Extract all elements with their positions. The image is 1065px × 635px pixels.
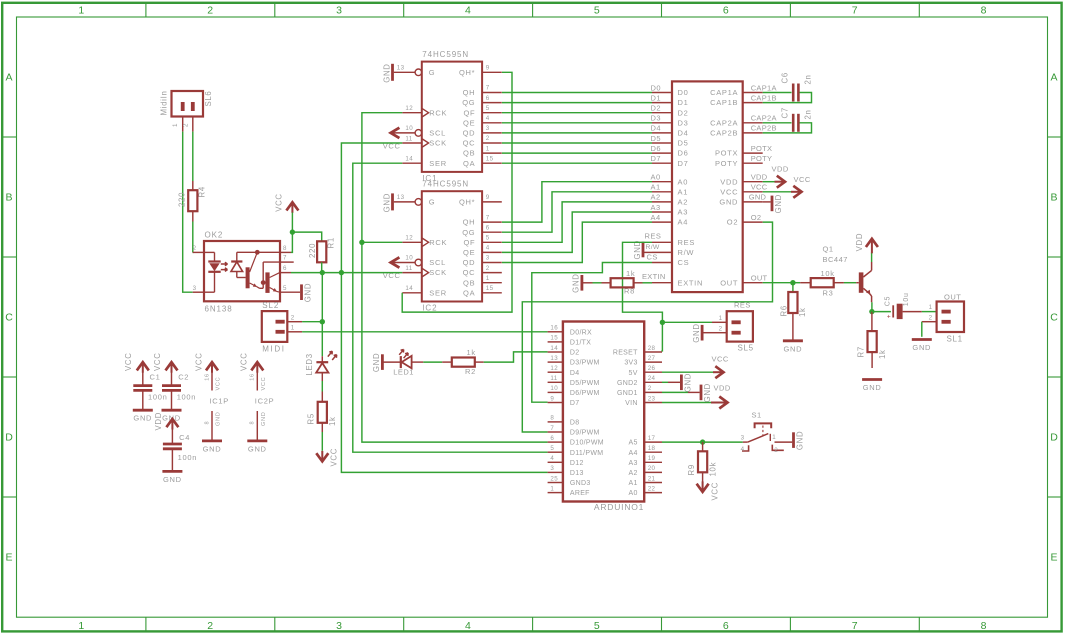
svg-text:10k: 10k (821, 269, 835, 278)
svg-text:D12: D12 (570, 460, 584, 467)
svg-text:O2: O2 (727, 218, 738, 227)
svg-text:GND: GND (863, 383, 882, 392)
junction VCC node (290, 229, 295, 234)
svg-text:OK2: OK2 (205, 231, 224, 240)
IC1 pin 14 SER (402, 162, 422, 164)
svg-text:R2: R2 (465, 367, 476, 376)
svg-text:8: 8 (981, 5, 987, 17)
junction OUT/R6/R3 (790, 280, 795, 285)
svg-text:A3: A3 (629, 460, 638, 467)
svg-text:A2: A2 (678, 198, 689, 207)
svg-text:4: 4 (465, 620, 471, 632)
svg-text:A1: A1 (629, 480, 638, 487)
wire GND to R8 (593, 282, 602, 284)
svg-text:GND: GND (749, 193, 767, 202)
svg-text:POTY: POTY (751, 154, 773, 163)
svg-text:A3: A3 (651, 203, 661, 212)
wire CAP1B loop (763, 93, 812, 103)
resistor R6 1k (788, 292, 797, 313)
svg-text:4: 4 (465, 5, 471, 17)
OK2 internal junction 2 (261, 280, 266, 285)
svg-text:3V3: 3V3 (624, 360, 637, 367)
svg-text:SL6: SL6 (204, 91, 213, 107)
svg-text:14: 14 (405, 285, 413, 292)
wire SL2 pin2 to RX net (302, 321, 322, 323)
svg-text:CAP1B: CAP1B (751, 93, 777, 102)
svg-text:11: 11 (405, 265, 412, 272)
wire Q1 collector to VDD (871, 253, 873, 262)
svg-text:CAP1A: CAP1A (710, 88, 738, 97)
svg-text:13: 13 (397, 194, 405, 201)
svg-text:SCL: SCL (429, 129, 446, 138)
svg-text:D7: D7 (570, 400, 580, 407)
wire LED3 to R5 (321, 373, 323, 381)
wire cascade IC1 QH* to IC2 SER (402, 72, 512, 312)
ARDUINO1 right pins A5-A0 (644, 441, 662, 443)
svg-text:2: 2 (193, 245, 197, 252)
svg-text:22: 22 (648, 485, 656, 492)
svg-text:1k: 1k (798, 307, 807, 317)
IC2 pin 1 QB (482, 282, 502, 284)
OK2 pin 2 (193, 251, 204, 253)
svg-text:2: 2 (486, 265, 490, 272)
svg-text:QE: QE (463, 118, 475, 127)
svg-text:R9: R9 (687, 464, 696, 475)
svg-text:2: 2 (648, 385, 652, 392)
svg-text:A4: A4 (678, 218, 689, 227)
svg-text:1k: 1k (878, 349, 887, 359)
IC2 pin 4 QE (482, 251, 502, 253)
frame row ticks (2, 136, 16, 138)
wire R5 to VCC (321, 432, 323, 451)
led LED3 (316, 361, 328, 363)
IC2 pin 13 G (394, 201, 415, 203)
svg-text:4: 4 (741, 446, 745, 453)
OK2 transistor Qb (265, 272, 269, 293)
svg-text:EXTIN: EXTIN (678, 278, 704, 287)
wire R4 bottom to OK2 pin2 (192, 222, 194, 253)
OK2 internal wire pin7 to Qb base (262, 262, 264, 283)
svg-text:VCC: VCC (712, 354, 729, 363)
svg-text:QA: QA (463, 159, 475, 168)
svg-text:220: 220 (308, 243, 317, 258)
resistor R1 220 (317, 241, 326, 262)
IC2 pin 14 SER (402, 292, 422, 294)
resistor R8 1k (602, 282, 611, 284)
svg-text:RESET: RESET (613, 350, 638, 357)
SID pin RES (652, 241, 672, 243)
OK2 pin 7 (280, 261, 294, 263)
svg-text:A2: A2 (629, 470, 638, 477)
svg-text:A: A (6, 72, 14, 84)
supply VCC arrow at SID (763, 191, 791, 193)
svg-text:VDD: VDD (772, 165, 789, 174)
svg-text:D0/RX: D0/RX (570, 329, 592, 336)
wire SL6 pin1 to OK2 pin3 (183, 132, 193, 293)
svg-text:OUT: OUT (720, 278, 738, 287)
svg-text:QD: QD (463, 129, 476, 138)
svg-text:13: 13 (550, 355, 558, 362)
IC1 pin 7 QH (482, 92, 502, 94)
OK2 pin 3 (193, 291, 204, 293)
IC1 pin 4 QE (482, 122, 502, 124)
svg-text:SL1: SL1 (947, 334, 963, 343)
svg-text:2n: 2n (804, 109, 813, 119)
svg-text:1: 1 (486, 275, 490, 282)
IC2 pin 10 SCL with VCC arrow (391, 257, 400, 267)
svg-text:QG: QG (462, 228, 475, 237)
svg-text:26: 26 (648, 365, 656, 372)
wire VCC to R1 and OK2 pin8 (291, 213, 292, 253)
IC IC1 74HC595N box (422, 62, 482, 172)
wire SID OUT to R3 (763, 282, 793, 284)
svg-text:4: 4 (486, 115, 490, 122)
svg-text:17: 17 (648, 435, 656, 442)
svg-text:D13: D13 (570, 470, 584, 477)
svg-text:C5: C5 (884, 296, 891, 306)
IC2 pin 9 QH* (482, 201, 502, 203)
svg-text:8: 8 (283, 245, 287, 252)
svg-text:6: 6 (486, 224, 490, 231)
svg-text:R/W: R/W (646, 244, 660, 251)
svg-text:A0: A0 (629, 490, 638, 497)
wire R1 bottom to RX net (321, 262, 323, 272)
svg-text:RES: RES (678, 238, 696, 247)
IC2 pin 6 QG (482, 231, 502, 233)
IC1 pin 15 QA (482, 162, 502, 164)
svg-text:VCC: VCC (710, 482, 719, 501)
svg-text:15: 15 (486, 285, 494, 292)
svg-text:7: 7 (486, 85, 490, 92)
svg-text:2n: 2n (804, 74, 813, 84)
IC2 pin 5 QF (482, 241, 502, 243)
svg-text:8: 8 (204, 421, 210, 425)
svg-text:QC: QC (463, 268, 476, 277)
supply VCC arrow down below R9 (697, 484, 709, 492)
svg-text:D7: D7 (678, 159, 689, 168)
OK2 internal photodiode (236, 252, 238, 261)
svg-text:D3/PWM: D3/PWM (570, 360, 600, 367)
svg-text:D1/TX: D1/TX (570, 340, 591, 347)
svg-text:1: 1 (486, 145, 490, 152)
svg-text:15: 15 (486, 155, 494, 162)
svg-text:POTY: POTY (715, 159, 738, 168)
svg-text:5: 5 (283, 285, 287, 292)
svg-text:RES: RES (734, 301, 751, 310)
svg-text:VCC: VCC (216, 377, 222, 391)
svg-text:SCK: SCK (429, 139, 447, 148)
svg-text:IC2: IC2 (422, 304, 437, 313)
svg-text:VCC: VCC (240, 352, 249, 371)
svg-text:GND: GND (203, 444, 222, 453)
svg-text:EXTIN: EXTIN (642, 272, 666, 281)
junction SCK vertical on RX net (339, 270, 344, 275)
supply VDD arrow at Arduino VIN (662, 402, 711, 404)
OK2 transistor Qa (246, 267, 250, 288)
svg-text:QC: QC (463, 139, 476, 148)
wire R2 to Arduino D2 (484, 352, 548, 362)
IC2 pin 15 QA (482, 292, 502, 294)
svg-text:GND: GND (784, 344, 803, 353)
svg-text:GND: GND (774, 194, 783, 213)
svg-text:C: C (5, 312, 13, 324)
svg-text:C6: C6 (781, 72, 790, 83)
IC SID chip box (672, 81, 743, 292)
supply VCC arrow at Arduino 5V (662, 371, 714, 373)
supply VCC arrow above OK2 pin8 (286, 202, 298, 210)
svg-text:D3: D3 (651, 114, 662, 123)
svg-text:LED3: LED3 (305, 353, 314, 375)
svg-text:D7: D7 (651, 154, 662, 163)
svg-text:2: 2 (486, 135, 490, 142)
IC2 pin 3 QD (482, 262, 502, 264)
svg-text:QB: QB (463, 278, 475, 287)
svg-text:QH: QH (463, 218, 476, 227)
wire CAP2B loop (763, 123, 812, 133)
svg-text:2: 2 (291, 315, 295, 322)
svg-text:9: 9 (486, 65, 490, 72)
svg-text:GND: GND (703, 383, 712, 402)
IC2 GND symbol at pin 13 (391, 193, 394, 210)
svg-text:A0: A0 (678, 177, 689, 186)
IC2 pin 12 RCK (402, 241, 422, 243)
svg-text:220: 220 (177, 192, 186, 207)
svg-text:OUT: OUT (944, 292, 961, 301)
svg-text:D9/PWM: D9/PWM (570, 430, 600, 437)
svg-text:D6/PWM: D6/PWM (570, 390, 600, 397)
junction A5/R9/S1 (700, 439, 705, 444)
svg-text:5: 5 (486, 235, 490, 242)
capacitor C7 2n (763, 122, 792, 124)
resistor R4 220 (192, 181, 194, 190)
IC ARDUINO1 box (563, 322, 644, 502)
wire C5 to SL1 pin1 (903, 311, 922, 313)
OK2 coupling arrows (221, 262, 228, 266)
svg-text:GND: GND (261, 411, 267, 426)
wire CS net: SID CS to Arduino D7 (532, 263, 652, 403)
svg-text:23: 23 (648, 395, 656, 402)
svg-text:C2: C2 (178, 373, 189, 382)
IC1 pin 13 G (394, 71, 415, 73)
svg-text:G: G (429, 68, 436, 77)
svg-text:VCC: VCC (124, 352, 133, 371)
frame column ticks (145, 3, 147, 17)
svg-text:10: 10 (405, 125, 413, 132)
svg-text:8: 8 (550, 415, 554, 422)
svg-text:S1: S1 (752, 411, 762, 420)
svg-text:D2: D2 (570, 350, 580, 357)
wire Q1 emitter node (871, 302, 873, 311)
wire OUT net R6 branch (792, 283, 794, 292)
svg-text:28: 28 (648, 345, 656, 352)
svg-text:R7: R7 (856, 346, 865, 357)
IC1 GND symbol at pin 13 (391, 64, 394, 81)
svg-text:QH*: QH* (459, 198, 475, 207)
SID pin EXTIN (652, 282, 672, 284)
junction at SL2 pin2 (320, 319, 325, 324)
SID pin CS (652, 262, 672, 264)
svg-text:16: 16 (204, 373, 210, 381)
svg-text:D2: D2 (651, 104, 662, 113)
svg-text:A1: A1 (678, 187, 689, 196)
svg-text:VCC: VCC (794, 175, 811, 184)
svg-text:D8: D8 (570, 420, 580, 427)
svg-text:1: 1 (929, 304, 933, 311)
bus wires IC1 outputs to SID D0-D7 (502, 92, 652, 94)
svg-text:14: 14 (405, 155, 413, 162)
svg-text:SER: SER (429, 159, 447, 168)
svg-text:1: 1 (719, 315, 723, 322)
svg-text:GND: GND (382, 193, 391, 212)
IC1 pin 6 QG (482, 102, 502, 104)
SID pin R/W with GND (652, 251, 672, 253)
svg-text:74HC595N: 74HC595N (422, 180, 469, 189)
capacitor C2 100n with VCC and GND (166, 362, 178, 370)
svg-text:D4: D4 (678, 129, 689, 138)
OK2 pin 5 (280, 291, 300, 293)
svg-text:R3: R3 (823, 288, 834, 297)
svg-text:D6: D6 (651, 144, 662, 153)
svg-text:D2: D2 (678, 108, 689, 117)
svg-text:GND: GND (163, 475, 182, 484)
svg-text:D5: D5 (651, 134, 662, 143)
svg-text:8: 8 (250, 421, 256, 425)
wire RCK net: IC1 pin12 to Arduino D10 (362, 113, 548, 442)
svg-text:VDD: VDD (855, 233, 864, 252)
supply VDD arrow at Q1 (866, 239, 878, 247)
svg-text:C1: C1 (150, 373, 161, 382)
power pins IC2P (251, 362, 263, 370)
svg-text:VCC: VCC (720, 187, 738, 196)
svg-text:20: 20 (648, 465, 656, 472)
resistor R2 1k (442, 361, 452, 363)
svg-text:R6: R6 (780, 305, 789, 316)
svg-text:VCC: VCC (274, 193, 283, 212)
svg-text:3: 3 (486, 125, 490, 132)
svg-text:GND: GND (216, 411, 222, 426)
wire RES net: SID RES to SL5 and Arduino RESET (623, 242, 663, 322)
svg-text:E: E (6, 552, 14, 564)
svg-text:6: 6 (550, 435, 554, 442)
svg-text:24: 24 (648, 375, 656, 382)
svg-text:D10/PWM: D10/PWM (570, 440, 604, 447)
supply VDD arrow at SID (763, 181, 775, 183)
svg-text:GND2: GND2 (617, 380, 638, 387)
svg-text:6: 6 (723, 5, 729, 17)
IC1 pin 5 QF (482, 112, 502, 114)
svg-text:12: 12 (405, 105, 413, 112)
svg-text:QA: QA (463, 288, 475, 297)
wire SL1 pin2 to GND (921, 322, 923, 337)
IC1 pin 3 QD (482, 132, 502, 134)
IC1 pin 12 RCK (402, 112, 422, 114)
svg-text:D: D (5, 432, 13, 444)
svg-text:POTX: POTX (751, 144, 773, 153)
power pins IC1P (206, 362, 218, 370)
svg-text:CAP2A: CAP2A (751, 114, 777, 123)
svg-text:7: 7 (852, 5, 858, 17)
wire SL2 pin1 to Arduino D0/RX (302, 331, 547, 333)
svg-text:QE: QE (463, 248, 475, 257)
svg-text:A4: A4 (651, 213, 661, 222)
svg-text:GND: GND (133, 414, 152, 423)
svg-text:ARDUINO1: ARDUINO1 (594, 502, 644, 512)
IC1 pin 10 SCL with VCC arrow (391, 128, 400, 138)
svg-text:2: 2 (182, 123, 189, 127)
svg-text:19: 19 (648, 455, 656, 462)
svg-text:21: 21 (648, 475, 656, 482)
svg-text:O2: O2 (751, 213, 762, 222)
wire RCK branch to IC2 pin12 (362, 241, 402, 243)
svg-text:CS: CS (678, 258, 690, 267)
svg-text:R4: R4 (198, 186, 207, 197)
SID left pins D0-D7 (652, 92, 672, 94)
svg-text:D1: D1 (678, 98, 689, 107)
svg-text:3: 3 (336, 620, 342, 632)
svg-text:14: 14 (550, 345, 558, 352)
svg-text:GND: GND (382, 63, 391, 82)
svg-text:2: 2 (207, 5, 213, 17)
svg-text:CAP1A: CAP1A (751, 83, 777, 92)
svg-text:VCC: VCC (330, 448, 339, 467)
svg-text:SL5: SL5 (738, 343, 754, 352)
connector SL5 RES (727, 311, 753, 341)
svg-text:GND3: GND3 (570, 480, 591, 487)
svg-text:1: 1 (772, 434, 776, 441)
svg-text:QD: QD (463, 258, 476, 267)
svg-text:IC1P: IC1P (210, 397, 229, 406)
resistor R5 1k (321, 392, 323, 402)
wire LED1 to R2 (423, 361, 442, 363)
svg-text:QH: QH (463, 88, 476, 97)
svg-text:D: D (1050, 432, 1058, 444)
svg-text:MidiIn: MidiIn (160, 91, 169, 116)
OK2 internal junction (255, 250, 260, 255)
svg-text:B: B (1051, 192, 1059, 204)
svg-text:6: 6 (723, 620, 729, 632)
svg-text:3: 3 (336, 5, 342, 17)
svg-text:D5: D5 (678, 139, 689, 148)
SID left pins A0-A4 (652, 181, 672, 183)
svg-text:VDD: VDD (751, 173, 768, 182)
svg-text:R/W: R/W (678, 248, 695, 257)
svg-text:R8: R8 (624, 287, 635, 296)
wire O2 net: SID O2 to Arduino D9 (522, 222, 772, 432)
capacitor C6 2n (763, 92, 792, 94)
IC2 pin 7 QH (482, 221, 502, 223)
ground GND at Arduino GND2 (662, 381, 668, 383)
svg-text:100n: 100n (148, 393, 168, 402)
svg-text:G: G (429, 198, 436, 207)
capacitor C4 100n with VDD and GND (166, 419, 178, 427)
ground GND at LED1 (381, 354, 384, 370)
IC IC2 74HC595N box (422, 191, 482, 301)
IC1 pin 1 QB (482, 152, 502, 154)
svg-text:GND: GND (572, 273, 581, 292)
IC1 pin 9 QH* (482, 71, 502, 73)
svg-text:SCK: SCK (429, 268, 447, 277)
svg-text:27: 27 (648, 355, 656, 362)
svg-text:3: 3 (193, 285, 197, 292)
wire RX net down to SL2/LED3 (321, 273, 323, 357)
svg-text:10k: 10k (709, 462, 718, 477)
svg-text:1k: 1k (626, 269, 635, 278)
svg-text:1k: 1k (467, 348, 476, 357)
svg-text:5: 5 (486, 105, 490, 112)
svg-text:+: + (887, 313, 892, 320)
svg-text:A: A (1051, 72, 1059, 84)
svg-text:C4: C4 (179, 433, 190, 442)
